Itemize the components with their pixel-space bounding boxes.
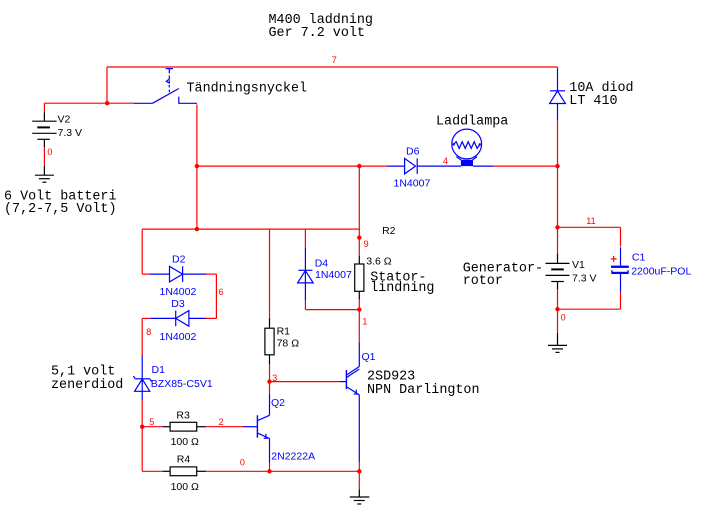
svg-text:6: 6 — [219, 287, 224, 297]
svg-text:BZX85-C5V1: BZX85-C5V1 — [151, 378, 213, 390]
svg-text:D3: D3 — [171, 298, 185, 310]
svg-text:5: 5 — [149, 417, 154, 427]
svg-text:Q2: Q2 — [271, 397, 285, 409]
svg-text:3: 3 — [272, 373, 277, 383]
svg-text:D6: D6 — [406, 146, 420, 158]
svg-text:Ger 7.2 volt: Ger 7.2 volt — [269, 26, 365, 41]
svg-text:zenerdiod: zenerdiod — [51, 378, 123, 393]
svg-text:1N4002: 1N4002 — [160, 286, 197, 298]
svg-text:0: 0 — [561, 313, 566, 323]
svg-text:0: 0 — [240, 458, 245, 468]
svg-text:100 Ω: 100 Ω — [171, 481, 199, 493]
svg-text:8: 8 — [146, 327, 151, 337]
svg-text:D4: D4 — [315, 257, 329, 269]
svg-text:D1: D1 — [152, 364, 166, 376]
svg-text:R1: R1 — [277, 326, 291, 338]
svg-text:100 Ω: 100 Ω — [171, 436, 199, 448]
svg-text:R4: R4 — [177, 454, 191, 466]
svg-text:Tändningsnyckel: Tändningsnyckel — [187, 82, 308, 97]
svg-text:LT 410: LT 410 — [569, 94, 617, 109]
svg-text:4: 4 — [443, 156, 448, 166]
svg-text:D2: D2 — [172, 254, 186, 266]
svg-text:1N4002: 1N4002 — [160, 331, 197, 343]
svg-text:Laddlampa: Laddlampa — [436, 114, 508, 129]
svg-text:11: 11 — [586, 216, 595, 226]
svg-text:0: 0 — [47, 147, 52, 157]
svg-text:78 Ω: 78 Ω — [277, 337, 300, 349]
svg-text:NPN Darlington: NPN Darlington — [367, 383, 480, 398]
svg-text:R2: R2 — [382, 225, 396, 237]
svg-text:7.3 V: 7.3 V — [58, 127, 83, 139]
svg-text:9: 9 — [364, 239, 369, 249]
svg-text:2200uF-POL: 2200uF-POL — [631, 265, 691, 277]
svg-text:7: 7 — [332, 55, 337, 65]
svg-text:R3: R3 — [176, 409, 190, 421]
svg-text:lindning: lindning — [370, 281, 434, 296]
svg-text:(7,2-7,5 Volt): (7,2-7,5 Volt) — [4, 202, 117, 217]
svg-text:7.3 V: 7.3 V — [572, 273, 597, 285]
svg-text:1N4007: 1N4007 — [315, 269, 352, 281]
svg-text:1N4007: 1N4007 — [394, 177, 431, 189]
svg-text:C1: C1 — [632, 252, 646, 264]
svg-text:Q1: Q1 — [362, 351, 376, 363]
svg-text:3.6 Ω: 3.6 Ω — [366, 255, 392, 267]
svg-text:rotor: rotor — [463, 274, 503, 289]
svg-text:V2: V2 — [58, 114, 71, 126]
svg-text:2N2222A: 2N2222A — [271, 451, 315, 463]
svg-text:V1: V1 — [572, 259, 585, 271]
svg-text:1: 1 — [362, 317, 367, 327]
svg-text:2: 2 — [219, 417, 224, 427]
